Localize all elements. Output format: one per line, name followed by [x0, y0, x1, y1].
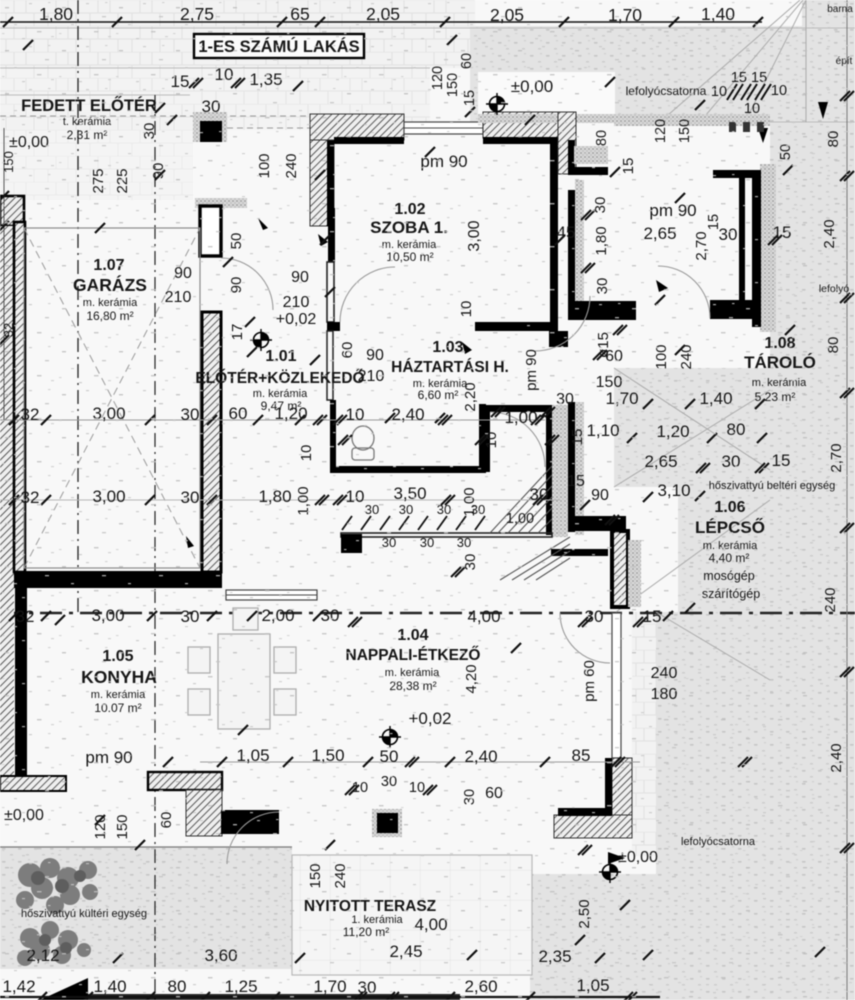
door arc taroló	[658, 266, 710, 318]
stair tread tick row	[342, 516, 485, 530]
szoba1 west lower thin wall	[327, 262, 334, 322]
survey point hall	[250, 329, 272, 351]
door arc terrace	[227, 812, 279, 864]
roof drain slope lines top right	[614, 0, 806, 680]
south dim row	[236, 746, 590, 766]
west wall cap top	[0, 196, 24, 226]
title box	[194, 34, 364, 58]
east outer wall mid	[575, 402, 584, 535]
left mid dim rows	[21, 404, 549, 507]
step piece	[549, 331, 568, 347]
szoba1 east wall	[550, 137, 558, 331]
stairs area dims	[556, 348, 623, 490]
kitchen south step wall	[148, 772, 222, 790]
door arc szoba1	[340, 267, 395, 322]
entry vertical dim ticks	[447, 35, 793, 203]
vertical axis line B	[154, 95, 156, 1000]
door arc hall entry	[535, 296, 590, 351]
south dim row ticks	[217, 725, 752, 795]
porch dim row ticks	[155, 78, 303, 113]
south dim row y762 line	[200, 761, 640, 763]
garden dim row ticks	[113, 947, 825, 963]
garage-porch divider wall lower	[202, 312, 221, 572]
mid dim row y415 ticks	[9, 415, 559, 445]
bottom dim line	[0, 996, 660, 998]
faint room grid lines top band	[0, 28, 855, 122]
door arc nappali east	[560, 613, 610, 663]
garden area bottom-left	[0, 847, 292, 969]
garden boundary line	[0, 846, 292, 848]
stair room top wall	[483, 405, 547, 412]
left edge dim line	[3, 128, 5, 420]
corridor east wall	[575, 180, 584, 306]
stair room left jamb	[483, 412, 490, 472]
right dim chain	[846, 0, 848, 1000]
szoba1 south wall stub	[327, 322, 340, 331]
footing strip east of nappali	[632, 612, 656, 856]
wc west wall	[330, 400, 336, 473]
wc toilet	[352, 426, 374, 460]
wc east jamb	[479, 404, 486, 473]
garage floor cross	[24, 228, 200, 568]
top dim numbers	[39, 4, 735, 25]
szoba1 south wall	[475, 322, 558, 331]
taroló east insulation band	[760, 164, 776, 332]
walls	[0, 112, 776, 838]
porch pillar	[193, 112, 227, 142]
entry north insulated sill	[478, 114, 615, 123]
haztartasi west thin wall	[327, 331, 333, 400]
left edge dims	[1, 151, 16, 337]
gravel right strip full height	[770, 122, 855, 1000]
door arc garage	[221, 258, 273, 310]
corridor north wall piece	[558, 112, 576, 174]
top dim chain line	[0, 21, 762, 23]
survey point nappali	[379, 726, 401, 748]
garden shrub lower	[17, 921, 91, 966]
survey point terrace	[599, 861, 621, 883]
taroló north band	[614, 114, 770, 126]
garden dims	[26, 942, 571, 966]
garage interior outline	[24, 228, 200, 568]
terrace pillar	[372, 809, 402, 837]
taroló bottom wall	[710, 300, 761, 319]
corridor dims	[592, 158, 710, 295]
horizontal section line	[0, 612, 855, 615]
right edge vertical dims	[821, 131, 845, 773]
section row dims	[16, 606, 662, 626]
garage area ticks	[55, 223, 320, 625]
mid dim row y415 line	[0, 419, 545, 421]
wc south wall	[330, 466, 486, 473]
garage west wall	[0, 226, 14, 776]
terrace paving	[292, 855, 532, 975]
corridor vertical dim ticks	[525, 77, 627, 360]
west wall bottom end cap	[0, 776, 66, 791]
porch roof edge lines	[0, 115, 310, 117]
kitchen area ticks	[95, 757, 630, 945]
szoba1 west wall band	[310, 114, 334, 226]
garage south window	[226, 590, 317, 600]
mid dim row y497 ticks	[9, 492, 653, 510]
bottom dim row	[2, 976, 609, 997]
section line ticks	[9, 567, 673, 653]
garage south wall	[14, 571, 222, 588]
garage-porch divider wall top	[195, 198, 247, 208]
garden shrub upper	[16, 858, 98, 914]
terrace door sill wall	[221, 810, 279, 834]
nappali east wall upper	[612, 531, 628, 607]
bottom-left solid wedge	[40, 978, 88, 1000]
stair tread hatch	[490, 466, 570, 580]
tiled paving below title row left	[0, 68, 430, 130]
door arc stair	[490, 412, 545, 467]
gravel area around stairs / east side	[614, 368, 770, 612]
wc area ticks	[338, 407, 555, 445]
nappali east window	[612, 613, 621, 758]
se terrace corner wall	[612, 758, 632, 838]
stair bottom corner block	[341, 534, 362, 553]
szoba1 north window	[404, 122, 483, 134]
north/slope arrows	[186, 102, 828, 864]
taroló east wall	[752, 170, 761, 327]
stairs area gray dim ticks	[605, 235, 795, 613]
survey point top entry	[486, 93, 508, 115]
white entry landing cutout	[478, 72, 615, 122]
szoba1 west wall step	[328, 208, 335, 262]
bottom dim ticks	[37, 992, 637, 1000]
entry vertical dims	[430, 53, 794, 230]
taroló inner jamb	[739, 178, 745, 300]
east wall corner step	[568, 516, 626, 531]
kitchen lower dims	[92, 812, 593, 929]
nappali north-east wall	[551, 549, 608, 556]
szoba1 west inner face	[327, 140, 334, 226]
szoba1 north wall east part	[483, 112, 575, 138]
tiled paving band top-left	[0, 0, 475, 68]
left upper dim ticks	[23, 40, 620, 297]
gravel top-right band	[470, 26, 855, 122]
top dim chain ticks	[3, 17, 763, 45]
drain outlets top right	[729, 122, 736, 132]
vertical axis line A	[77, 0, 79, 613]
north-west vertical dims	[90, 123, 300, 194]
wall stub south of corridor	[568, 301, 636, 320]
dining table	[188, 608, 296, 729]
szoba1 north wall west part	[310, 114, 404, 140]
gravel bottom-right area	[656, 612, 855, 1000]
stair bottom wall	[341, 533, 552, 537]
stair room east wall	[546, 405, 552, 535]
porch dim row	[171, 65, 283, 116]
drain hatch marks top right	[727, 84, 771, 100]
taroló top wall	[713, 170, 761, 178]
kitchen west wall	[15, 572, 27, 776]
